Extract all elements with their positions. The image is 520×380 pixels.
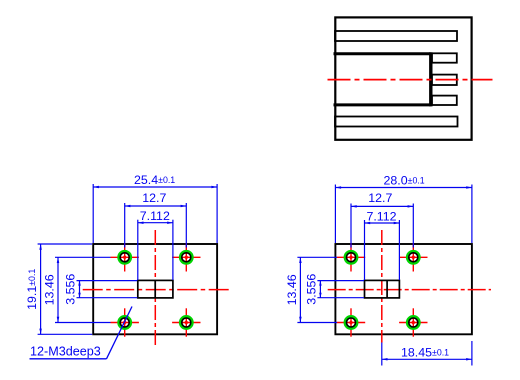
body right thick edge bbox=[429, 52, 432, 106]
dimension 19.1±0.1 extension lines bbox=[38, 244, 93, 334]
left plate center slot rectangle bbox=[138, 280, 173, 298]
right center slot divider bbox=[386, 280, 388, 298]
dimension 13.46 extension lines (left) bbox=[55, 257, 111, 322]
dimension 25.4±0.1 line with arrows bbox=[93, 186, 217, 189]
dimension 7.112 extension lines (left) bbox=[138, 220, 173, 280]
hole top-left of left plate bbox=[111, 243, 139, 271]
dimension 12.7 line with arrows (right) bbox=[351, 205, 413, 208]
dimension 25.4±0.1 extension lines bbox=[93, 184, 217, 243]
dimension 12.7 extension lines (right) bbox=[351, 204, 413, 248]
svg-text:12.7: 12.7 bbox=[368, 191, 392, 205]
dimension 19.1±0.1 line with arrows bbox=[39, 244, 42, 334]
dimension 12.7 line with arrows (left) bbox=[125, 205, 187, 208]
svg-text:7.112: 7.112 bbox=[140, 209, 170, 223]
body top thick line bbox=[334, 52, 431, 55]
hole bottom-left of left plate bbox=[111, 308, 139, 336]
dimension 13.46 line with arrows (left) bbox=[57, 257, 60, 322]
bottom fin slot bbox=[335, 117, 458, 127]
right plate horizontal centerline bbox=[328, 289, 491, 291]
dimension 3.556 extension lines (left) bbox=[77, 281, 138, 298]
dimension 18.45±0.1 extension lines bbox=[382, 341, 472, 366]
right plate vertical centerline bbox=[381, 230, 383, 343]
dimension 3.556 extension lines (right) bbox=[317, 281, 364, 298]
side view outer outline bbox=[335, 17, 471, 139]
dimension 12.7 extension lines (left) bbox=[125, 203, 187, 248]
left plate horizontal centerline bbox=[83, 289, 229, 291]
dimension 28.0±0.1 extension lines bbox=[335, 185, 472, 244]
label underline bbox=[30, 358, 107, 360]
hole top-right of right plate bbox=[399, 243, 427, 271]
dimension 28.0±0.1 line with arrows bbox=[335, 186, 472, 189]
dimension 3.556 line with arrows (left) bbox=[78, 281, 81, 298]
svg-text:13.46: 13.46 bbox=[43, 274, 57, 305]
side view centerline bbox=[328, 79, 493, 81]
top fin slot bbox=[335, 31, 457, 41]
left plate vertical centerline bbox=[154, 230, 156, 347]
dimension 13.46 extension lines (right) bbox=[297, 257, 337, 322]
svg-text:3.556: 3.556 bbox=[64, 274, 78, 305]
svg-text:3.556: 3.556 bbox=[305, 274, 319, 305]
right small slot C bbox=[432, 96, 457, 105]
dimension 3.556 line with arrows (right) bbox=[319, 281, 322, 298]
dimension 18.45±0.1 line with arrows bbox=[382, 358, 472, 361]
svg-text:12-M3deep3: 12-M3deep3 bbox=[30, 344, 101, 358]
right plate outline bbox=[335, 244, 472, 334]
hole top-right of left plate bbox=[172, 243, 200, 271]
dimension 7.112 extension lines (right) bbox=[365, 220, 400, 280]
svg-text:7.112: 7.112 bbox=[366, 209, 396, 223]
hole bottom-left of right plate bbox=[337, 308, 365, 336]
body bottom thick line bbox=[334, 103, 431, 106]
right plate center slot rectangle bbox=[365, 280, 400, 298]
svg-text:13.46: 13.46 bbox=[285, 274, 299, 305]
right small slot A bbox=[432, 53, 457, 62]
svg-text:12.7: 12.7 bbox=[142, 191, 166, 205]
svg-text:25.4±0.1: 25.4±0.1 bbox=[134, 173, 175, 187]
dimension 7.112 line with arrows (right) bbox=[365, 222, 400, 225]
dimension 7.112 line with arrows (left) bbox=[138, 221, 173, 224]
hole bottom-right of left plate bbox=[172, 308, 200, 336]
label leader line to hole bbox=[107, 307, 133, 359]
dimension 13.46 line with arrows (right) bbox=[299, 257, 302, 322]
svg-text:18.45±0.1: 18.45±0.1 bbox=[401, 346, 449, 360]
hole bottom-right of right plate bbox=[399, 308, 427, 336]
left plate outline bbox=[93, 244, 217, 334]
hole top-left of right plate bbox=[337, 243, 365, 271]
svg-text:28.0±0.1: 28.0±0.1 bbox=[384, 174, 425, 188]
svg-text:19.1±0.1: 19.1±0.1 bbox=[25, 269, 39, 310]
left center slot divider bbox=[154, 280, 156, 298]
right small slot B bbox=[432, 75, 457, 85]
